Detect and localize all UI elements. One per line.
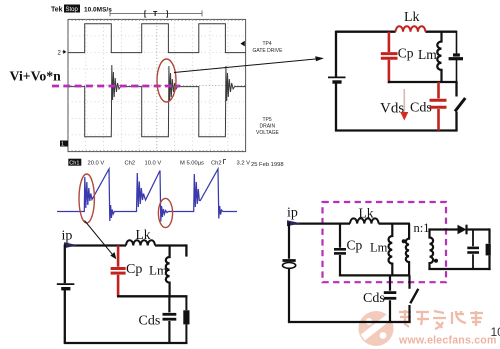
watermark chinese characters — [399, 310, 483, 329]
inductor Lk (BR) — [350, 218, 379, 223]
svg-text:3.2 V: 3.2 V — [237, 161, 251, 167]
svg-text:20.0 V: 20.0 V — [88, 161, 105, 167]
svg-text:10: 10 — [491, 325, 500, 339]
wire BR bottom — [288, 321, 411, 323]
svg-text:Vi+Vo*n: Vi+Vo*n — [10, 69, 62, 84]
capacitor Cds (TR, red) — [430, 82, 447, 131]
inductor Lm (TR) — [437, 32, 441, 82]
svg-text:Cp: Cp — [347, 238, 363, 253]
wire BR left vertical — [288, 223, 290, 323]
trigger level marker — [240, 41, 244, 47]
svg-text:ip: ip — [287, 206, 298, 221]
wire BR top — [289, 223, 410, 225]
transformer secondary winding — [430, 230, 439, 270]
wire TR mid rail — [388, 81, 458, 83]
diode D1 — [458, 225, 467, 235]
wire BL left vertical — [64, 244, 66, 343]
watermark logo circle — [359, 311, 394, 346]
battery B1 (TR) — [328, 77, 346, 82]
transformer primary winding — [402, 224, 409, 276]
wire BL mid rail — [117, 295, 188, 297]
svg-text:GATE DRIVE: GATE DRIVE — [253, 48, 284, 54]
wire TR left vertical — [335, 31, 337, 131]
oscilloscope graticule frame — [68, 19, 246, 151]
svg-text:www.elecfans.com: www.elecfans.com — [398, 335, 497, 347]
svg-text:1: 1 — [61, 142, 64, 148]
scope readout — [68, 159, 250, 167]
wire BL bottom — [64, 342, 188, 344]
switch bar (BL) — [183, 296, 189, 343]
capacitor Cds (BR) — [384, 275, 397, 322]
svg-text:Lm: Lm — [370, 241, 388, 255]
ip arrow (BL) — [64, 242, 78, 248]
channel 1 marker — [60, 141, 68, 148]
svg-text:T: T — [153, 11, 158, 18]
dashed box (snubber model) — [323, 202, 447, 282]
wire secondary right vertical — [488, 228, 490, 270]
svg-text:VOLTAGE: VOLTAGE — [256, 130, 280, 136]
svg-text:Cds: Cds — [139, 314, 161, 329]
svg-text:[: [ — [144, 11, 147, 18]
highlight ellipse 2 on waveform — [158, 198, 172, 227]
svg-text:Cp: Cp — [398, 46, 414, 61]
Vds arrow — [400, 89, 408, 121]
battery B1 (BL) — [57, 284, 75, 289]
Ch1 drain voltage trace — [68, 65, 246, 137]
wire secondary top — [428, 228, 489, 230]
wire TR top — [336, 31, 457, 33]
inductor Lk (TR, red) — [396, 26, 426, 31]
svg-text:ip: ip — [62, 229, 73, 244]
ip current waveform (blue) — [57, 169, 237, 222]
svg-text:Lk: Lk — [359, 206, 374, 221]
wire secondary bottom rail — [428, 268, 490, 270]
svg-text:Cds: Cds — [363, 291, 385, 306]
svg-text:10.0 V: 10.0 V — [145, 161, 162, 167]
svg-text:DRAIN: DRAIN — [260, 124, 276, 130]
switch SW (TR) — [455, 82, 465, 131]
svg-text:]: ] — [166, 11, 168, 18]
svg-text:Vds: Vds — [380, 101, 404, 117]
svg-text:25 Feb 1998: 25 Feb 1998 — [251, 162, 284, 168]
capacitor Cp (TR, red) — [381, 32, 398, 83]
wire BR primary bottom rail — [339, 274, 410, 276]
trigger position indicator — [110, 10, 202, 16]
svg-text:Stop: Stop — [66, 7, 79, 13]
wire BL drain stub — [185, 244, 187, 256]
wire BL top — [65, 244, 187, 246]
annotation arrow to equivalent circuit — [174, 56, 324, 72]
highlight ellipse 1 on waveform — [79, 174, 94, 223]
highlight ellipse on drain spike — [157, 59, 176, 102]
label TP4 GATE DRIVE — [253, 41, 284, 54]
svg-text:Lm: Lm — [149, 263, 167, 278]
label TP5 DRAIN VOLTAGE — [256, 117, 280, 136]
svg-text:Ch1: Ch1 — [69, 161, 79, 167]
inductor Lm (BR) — [388, 224, 392, 276]
capacitor Cp (BL, red) — [111, 246, 126, 297]
Ch2 gate drive trace — [68, 24, 246, 53]
svg-text:TP4: TP4 — [263, 41, 272, 47]
svg-text:TP5: TP5 — [263, 117, 272, 123]
svg-text:2: 2 — [58, 51, 62, 57]
svg-text:M 5.00µs: M 5.00µs — [180, 161, 204, 167]
wire TR bottom — [335, 129, 458, 131]
svg-text:Lk: Lk — [136, 227, 151, 242]
dashed level line Vi+Vo*n — [52, 85, 180, 88]
svg-text:Lk: Lk — [404, 10, 420, 25]
channel 2 marker — [58, 50, 66, 56]
svg-text:10.0MS/s: 10.0MS/s — [84, 7, 112, 14]
svg-text:Ch2: Ch2 — [125, 161, 136, 167]
inductor Lk (BL) — [126, 240, 155, 245]
capacitor C2 (TR right) — [449, 31, 463, 82]
annotation arrow ellipse1 to Cp — [85, 221, 117, 260]
svg-text:Ch2: Ch2 — [211, 161, 222, 167]
svg-text:Lm: Lm — [418, 47, 437, 62]
inductor Lm (BL) — [166, 246, 170, 297]
load resistor R — [486, 244, 491, 256]
svg-text:Tek: Tek — [51, 7, 63, 14]
capacitor Cp (BR) — [334, 224, 346, 276]
switch SW (BR) — [410, 275, 419, 322]
ip arrow (BR) — [287, 220, 301, 226]
svg-text:Cds: Cds — [410, 101, 432, 116]
output capacitor Co — [467, 230, 479, 270]
svg-text:n:1: n:1 — [414, 221, 430, 235]
capacitor Cds (BL) — [163, 296, 177, 343]
svg-text:Cp: Cp — [126, 262, 142, 277]
source capacitor (BR left) — [283, 261, 296, 269]
text Tek Stop 10.0MS/s — [51, 5, 112, 14]
